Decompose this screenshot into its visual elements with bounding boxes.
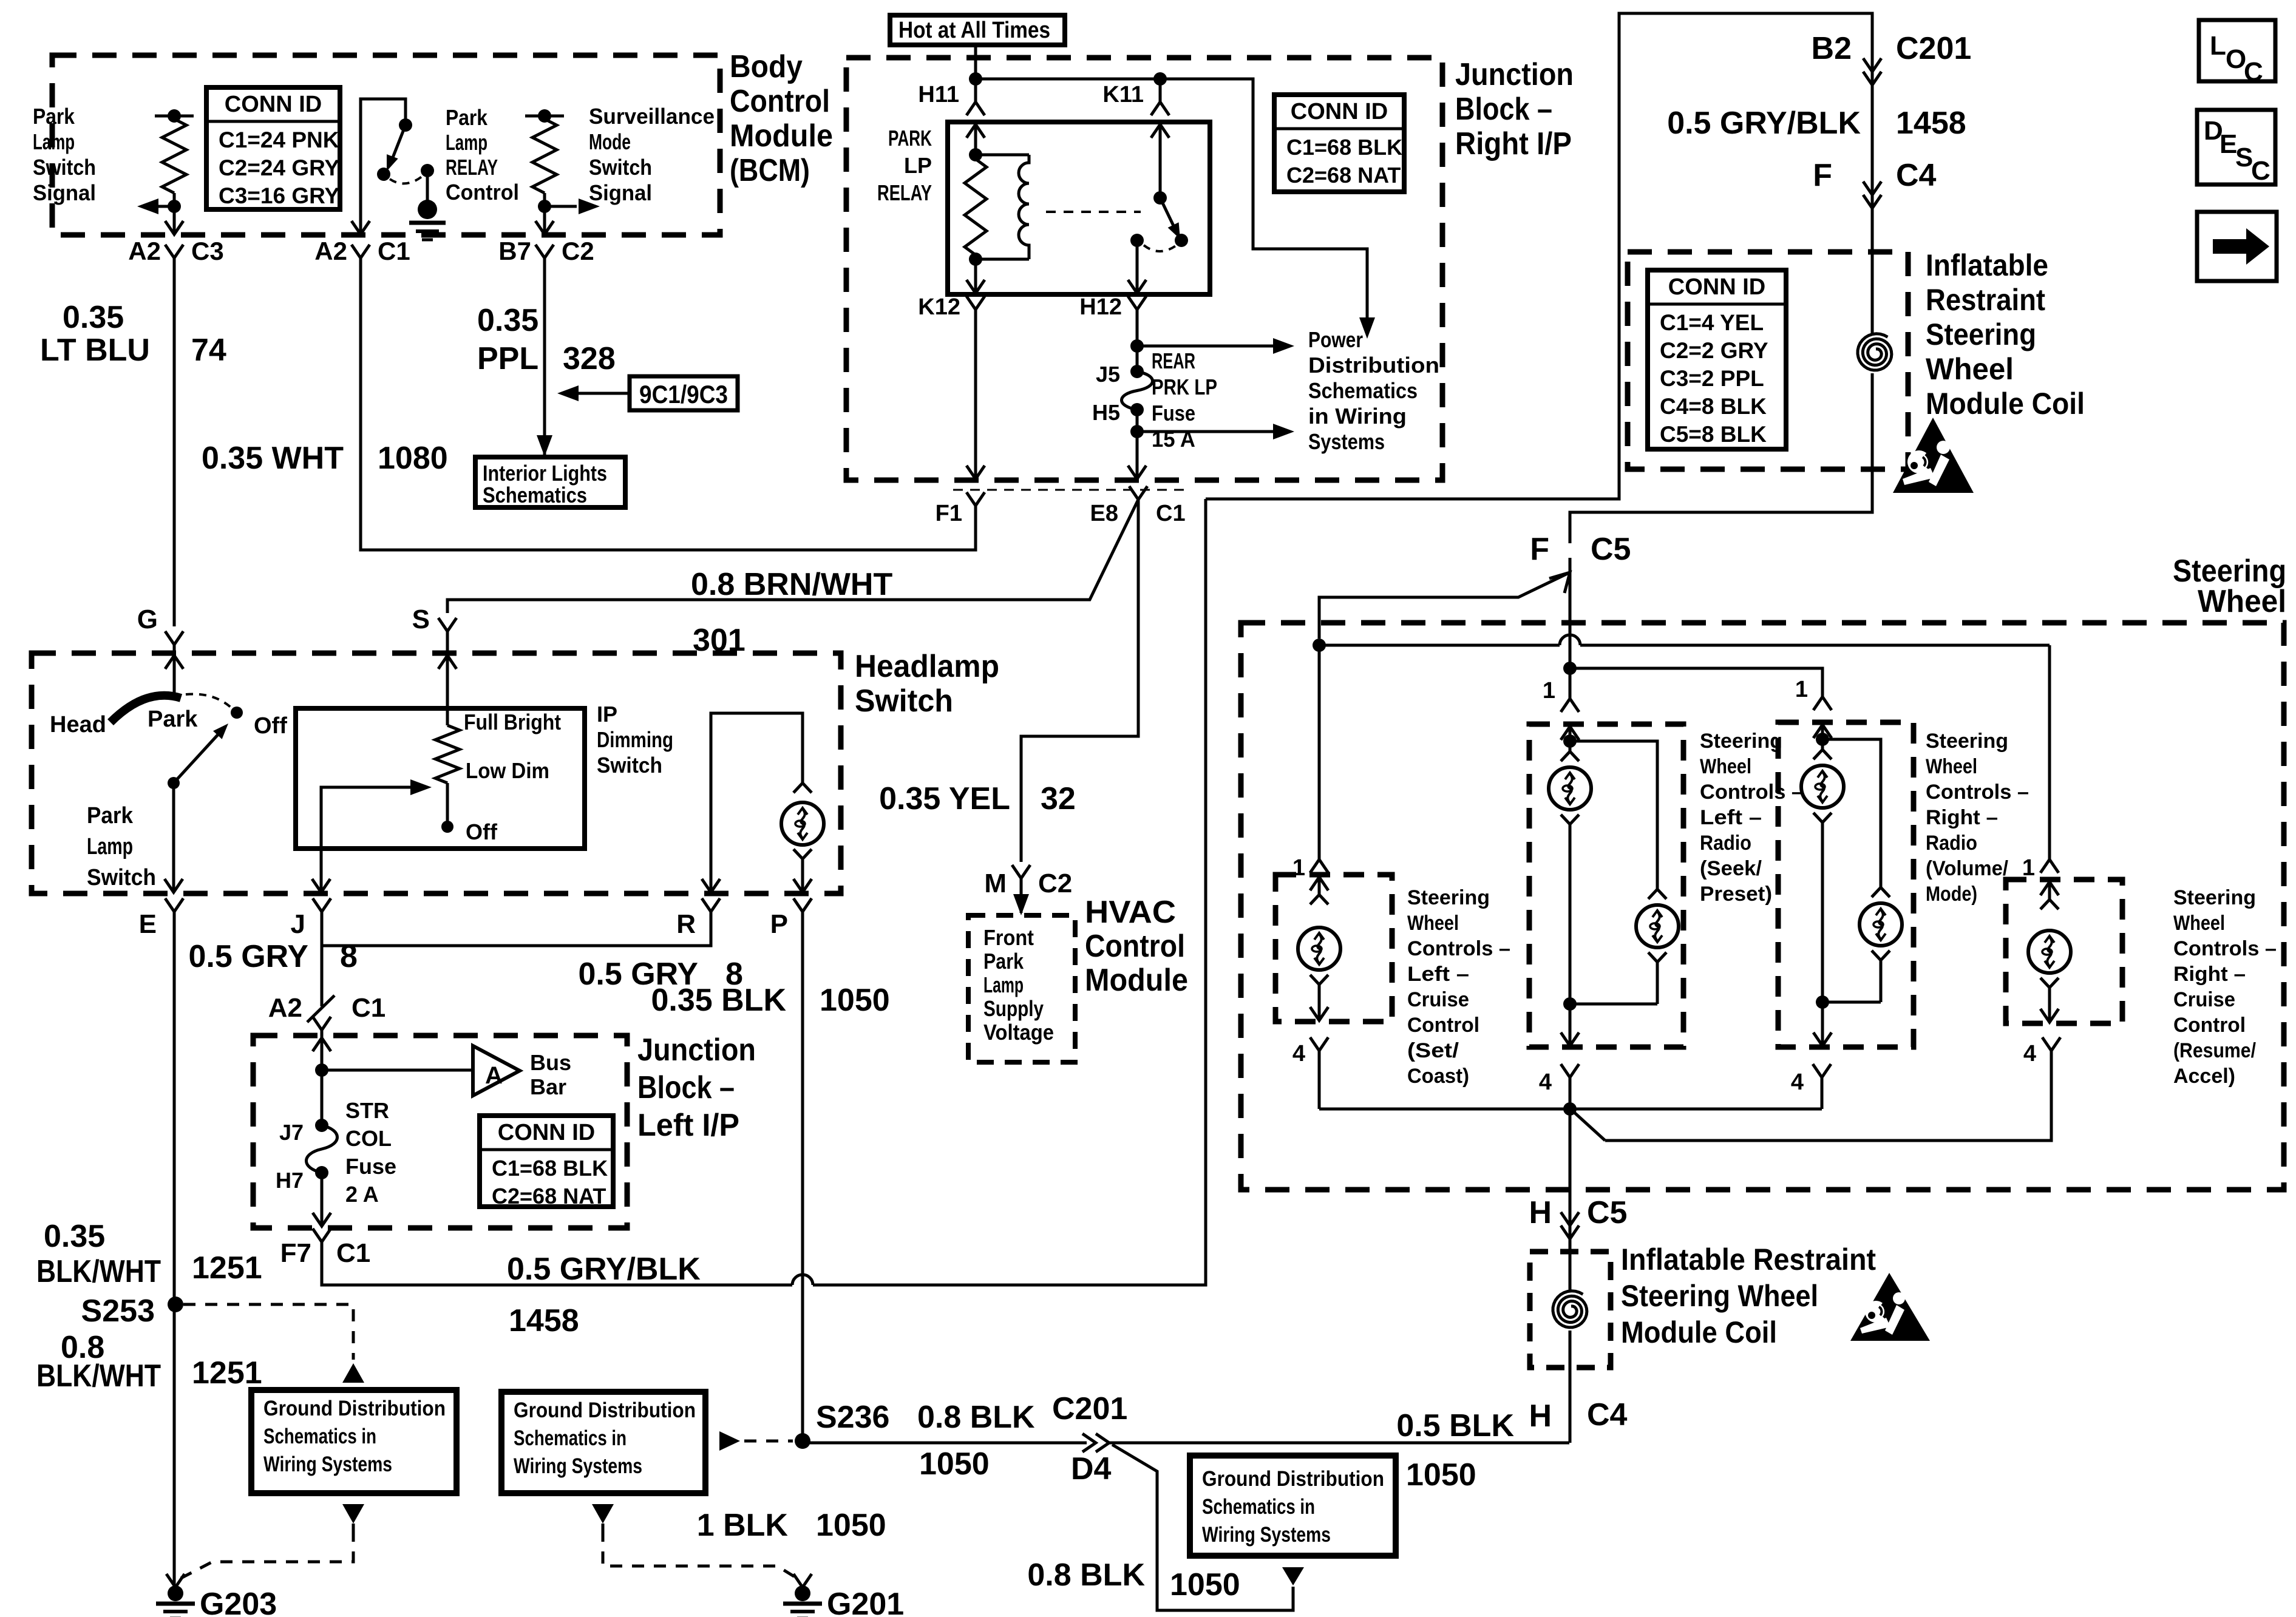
svg-text:Supply: Supply bbox=[983, 996, 1044, 1021]
svg-text:BLK/WHT: BLK/WHT bbox=[36, 1358, 161, 1394]
svg-text:C201: C201 bbox=[1896, 31, 1971, 66]
svg-text:J7: J7 bbox=[279, 1120, 304, 1145]
svg-text:1458: 1458 bbox=[509, 1303, 579, 1338]
switch: headlamp rotary wiper thick arc bbox=[110, 696, 181, 722]
node: ground contact dot bbox=[421, 164, 434, 177]
svg-text:Signal: Signal bbox=[33, 180, 96, 205]
connector F7/C1 chevron bbox=[313, 1229, 331, 1242]
svg-text:D4: D4 bbox=[1071, 1451, 1112, 1486]
wire: branch to bus bar triangle bbox=[322, 1069, 473, 1072]
svg-text:Mode: Mode bbox=[589, 129, 631, 154]
table: JB left CONN ID box bbox=[480, 1116, 613, 1207]
fuse: REAR PRK LP fuse 15A bbox=[1122, 371, 1153, 410]
ref box: Hot at All Times bbox=[890, 15, 1065, 45]
module box: Body Control Module (BCM) dashed outline bbox=[52, 55, 720, 235]
svg-text:Steering: Steering bbox=[1926, 317, 2036, 351]
svg-text:Steering: Steering bbox=[1926, 730, 2008, 753]
connector chevron below right lamp (SW controls left radio) bbox=[1648, 952, 1666, 962]
wire: fuse to F7 exit with arrow bbox=[321, 1173, 324, 1226]
switch: relay contact arm bbox=[1160, 198, 1174, 227]
svg-text:PRK LP: PRK LP bbox=[1152, 375, 1217, 399]
resistor: IP dimming rheostat bbox=[435, 725, 460, 783]
svg-text:Bus: Bus bbox=[530, 1050, 571, 1075]
svg-text:Front: Front bbox=[983, 925, 1034, 950]
svg-text:0.35: 0.35 bbox=[63, 300, 124, 335]
svg-text:Switch: Switch bbox=[855, 683, 953, 719]
svg-text:C: C bbox=[2251, 156, 2271, 186]
svg-text:Control: Control bbox=[1085, 929, 1185, 964]
svg-text:Junction: Junction bbox=[637, 1032, 756, 1068]
svg-text:C201: C201 bbox=[1052, 1391, 1127, 1426]
svg-text:C3=16 GRY: C3=16 GRY bbox=[219, 183, 339, 208]
lamp: SW controls left cruise illumination bbox=[1298, 927, 1340, 970]
svg-text:Surveillance: Surveillance bbox=[589, 104, 715, 129]
svg-text:Low Dim: Low Dim bbox=[466, 758, 549, 783]
svg-text:F: F bbox=[1813, 158, 1832, 193]
ground: BCM relay control ground symbol bbox=[418, 200, 437, 219]
icon: SRS warning triangle (bottom) bbox=[1850, 1273, 1930, 1341]
svg-text:4: 4 bbox=[1539, 1070, 1552, 1095]
ref box: Interior Lights Schematics bbox=[475, 457, 625, 507]
wire: arrow to Park Lamp Switch Signal text bbox=[146, 205, 174, 208]
node: H11 branch dot bbox=[969, 72, 982, 86]
svg-text:CONN ID: CONN ID bbox=[1291, 99, 1388, 124]
svg-text:C2: C2 bbox=[1038, 869, 1072, 898]
svg-text:Lamp: Lamp bbox=[983, 972, 1024, 997]
svg-text:Block –: Block – bbox=[637, 1070, 735, 1105]
svg-text:Headlamp: Headlamp bbox=[855, 649, 999, 684]
svg-text:Module Coil: Module Coil bbox=[1621, 1315, 1777, 1349]
svg-text:G201: G201 bbox=[827, 1587, 904, 1617]
wire: surveillance resistor top tick bbox=[525, 115, 564, 118]
svg-text:B7: B7 bbox=[498, 237, 531, 265]
svg-text:Controls –: Controls – bbox=[2173, 937, 2277, 960]
svg-text:Full Bright: Full Bright bbox=[464, 710, 561, 734]
ref box: 9C1/9C3 bbox=[630, 376, 738, 410]
svg-text:Wheel: Wheel bbox=[1700, 755, 1751, 778]
svg-text:Voltage: Voltage bbox=[983, 1020, 1054, 1045]
dashed link: S253 to ground distribution box 1 bbox=[183, 1304, 353, 1360]
connector fork above lamp (SW controls left cruise) bbox=[1310, 895, 1328, 904]
wire: arrow from 9C1/9C3 to PPL wire bbox=[571, 392, 630, 395]
dashed link: box 2 to S236 bbox=[744, 1440, 793, 1443]
wire: arrow at BCM boundary (C1 wire) bbox=[352, 221, 370, 234]
svg-text:Off: Off bbox=[254, 713, 287, 739]
node: dimmer Off dot bbox=[441, 821, 453, 833]
connector chevron below lamp (SW controls left cruise) bbox=[1310, 975, 1328, 985]
wire: PPL 328 from B7/C2 down to Interior Lights bbox=[543, 258, 546, 455]
svg-text:0.5 GRY/BLK: 0.5 GRY/BLK bbox=[507, 1252, 701, 1287]
svg-text:LP: LP bbox=[904, 153, 932, 178]
svg-text:F1: F1 bbox=[936, 501, 962, 526]
module box: Junction Block - Left I/P dashed outline bbox=[253, 1036, 627, 1228]
connector line: junction block C1 face bbox=[953, 489, 1184, 491]
wire: lamp to P exit bbox=[801, 859, 804, 892]
connector pin 4 volume mode bbox=[1813, 1064, 1831, 1077]
wire: arrow to Power Distribution lower bbox=[1137, 430, 1275, 433]
svg-text:Park: Park bbox=[33, 104, 75, 129]
arrow: onto G201 wire bbox=[793, 1574, 812, 1587]
svg-text:PPL: PPL bbox=[477, 341, 538, 376]
svg-text:1458: 1458 bbox=[1896, 106, 1966, 141]
ref box: Ground Distribution box 2 bbox=[501, 1392, 705, 1493]
wire: R2 bottom to junction bbox=[543, 193, 546, 206]
svg-text:Dimming: Dimming bbox=[597, 727, 673, 752]
wire: LT BLU 74 from A2/C3 down to G bbox=[173, 258, 176, 626]
svg-text:0.35: 0.35 bbox=[477, 303, 538, 338]
wire: SW controls right radio right lamp rejoin bbox=[1880, 960, 1883, 1002]
wire: right cruise pin4 offset path bbox=[1605, 1051, 2051, 1141]
connector pin 4 left radio bbox=[1561, 1064, 1579, 1077]
lamp: SW controls left radio left lamp bbox=[1549, 767, 1591, 810]
wire: rheostat to Off dot bbox=[446, 783, 449, 827]
svg-text:4: 4 bbox=[1791, 1070, 1804, 1095]
svg-text:A2: A2 bbox=[314, 237, 347, 265]
wire: relay switch common from K11 bbox=[1159, 122, 1162, 198]
wire: SW controls left radio entry with arrow bbox=[1569, 725, 1572, 741]
wire: D4 branch to ground distribution box 3 bbox=[1112, 1445, 1293, 1610]
wire: R wire joins J wire bbox=[322, 912, 711, 946]
node: R1 bottom junction dot bbox=[168, 200, 181, 213]
svg-text:Ground Distribution: Ground Distribution bbox=[514, 1398, 696, 1422]
svg-text:H11: H11 bbox=[918, 82, 959, 107]
svg-text:Park: Park bbox=[148, 707, 198, 732]
svg-text:Cruise: Cruise bbox=[1407, 988, 1469, 1011]
svg-text:0.5 BLK: 0.5 BLK bbox=[1396, 1408, 1514, 1443]
connector G chevron bbox=[165, 631, 183, 645]
svg-text:C1=68 BLK: C1=68 BLK bbox=[492, 1156, 608, 1181]
wire: J wire down bbox=[321, 912, 324, 1006]
svg-text:C4: C4 bbox=[1896, 158, 1937, 193]
hop: bus 1 over C5 wire bbox=[1560, 635, 1580, 645]
wire: left cruise feed bbox=[1318, 645, 1321, 859]
hop: GRY/BLK over P wire bbox=[792, 1275, 813, 1285]
svg-text:Radio: Radio bbox=[1926, 832, 1977, 855]
svg-text:0.8 BLK: 0.8 BLK bbox=[1027, 1558, 1145, 1593]
connector H11 fork bbox=[966, 102, 985, 115]
node: switch S1 pivot dot bbox=[377, 168, 390, 181]
svg-text:Module: Module bbox=[1085, 963, 1188, 998]
svg-text:H7: H7 bbox=[276, 1168, 304, 1193]
svg-text:Accel): Accel) bbox=[2173, 1065, 2235, 1088]
svg-text:Schematics in: Schematics in bbox=[263, 1425, 376, 1448]
node: bus 1 left dot bbox=[1313, 639, 1326, 652]
symbol: triangle below box 3 bbox=[1282, 1567, 1304, 1585]
svg-text:Switch: Switch bbox=[33, 155, 96, 180]
svg-text:Switch: Switch bbox=[87, 865, 156, 890]
svg-text:Fuse: Fuse bbox=[345, 1154, 396, 1179]
svg-text:K12: K12 bbox=[918, 294, 960, 320]
wire: M/C2 into HVAC with arrow bbox=[1020, 878, 1023, 913]
wire: R-P lamp loop bbox=[711, 713, 803, 892]
node: S253 splice dot bbox=[168, 1297, 183, 1312]
svg-text:C4=8 BLK: C4=8 BLK bbox=[1660, 394, 1767, 419]
node: bus bar branch dot bbox=[315, 1063, 328, 1077]
wire: SW controls right radio entry with arrow bbox=[1821, 724, 1824, 739]
svg-text:H: H bbox=[1529, 1398, 1552, 1434]
svg-text:Preset): Preset) bbox=[1700, 883, 1772, 906]
connector pin 4 left cruise bbox=[1310, 1037, 1328, 1051]
svg-text:0.35 WHT: 0.35 WHT bbox=[202, 441, 344, 476]
wire: arrow to Power Distribution upper bbox=[1137, 345, 1275, 348]
svg-text:Right I/P: Right I/P bbox=[1455, 126, 1572, 161]
svg-text:1050: 1050 bbox=[820, 983, 890, 1018]
coil: relay winding bbox=[1019, 155, 1029, 259]
svg-text:1050: 1050 bbox=[1406, 1457, 1476, 1493]
connector pin 1 left radio fork bbox=[1561, 699, 1579, 712]
svg-text:Controls –: Controls – bbox=[1700, 781, 1803, 804]
svg-text:Steering Wheel: Steering Wheel bbox=[1621, 1279, 1818, 1313]
node: bus 2 dot on C5 wire bbox=[1563, 662, 1577, 675]
connector H12 chevron bbox=[1128, 296, 1146, 310]
control box: SW controls right radio dashed outline bbox=[1778, 722, 1914, 1047]
connector B7/C2 chevron bbox=[535, 245, 554, 258]
wire: R2 down to BCM boundary with arrow bbox=[543, 206, 546, 234]
svg-text:Wiring Systems: Wiring Systems bbox=[514, 1454, 642, 1478]
wire: right cruise diagonal to bus dot bbox=[1572, 1110, 1605, 1141]
svg-text:Park: Park bbox=[983, 949, 1024, 974]
svg-text:(Seek/: (Seek/ bbox=[1700, 857, 1762, 880]
svg-text:0.8 BRN/WHT: 0.8 BRN/WHT bbox=[691, 567, 892, 602]
svg-text:Lamp: Lamp bbox=[33, 129, 75, 154]
svg-text:0.8 BLK: 0.8 BLK bbox=[917, 1400, 1035, 1435]
svg-text:B2: B2 bbox=[1812, 31, 1852, 66]
svg-text:Lamp: Lamp bbox=[446, 130, 487, 155]
svg-text:328: 328 bbox=[563, 341, 616, 376]
svg-text:REAR: REAR bbox=[1152, 348, 1195, 373]
wire: hot feed into junction block bbox=[974, 45, 977, 102]
control box: SW controls left cruise dashed outline bbox=[1275, 875, 1392, 1022]
module box: HVAC Control Module dashed outline bbox=[968, 915, 1075, 1062]
svg-text:Wheel: Wheel bbox=[2198, 584, 2286, 619]
svg-text:S: S bbox=[412, 605, 430, 634]
dashed link: box 2 to G201 wire bbox=[603, 1530, 799, 1579]
symbol: triangle below box 2 bbox=[592, 1504, 614, 1524]
wire: SW controls right radio left lamp down bbox=[1821, 822, 1824, 1002]
wire: S into IP dimming switch bbox=[446, 631, 449, 725]
wire: low dim wiper arrow to J exit bbox=[321, 787, 421, 892]
svg-text:C2: C2 bbox=[562, 237, 594, 265]
ref box: Ground Distribution box 1 bbox=[251, 1390, 457, 1493]
svg-text:E8: E8 bbox=[1090, 501, 1118, 526]
svg-text:Lamp: Lamp bbox=[87, 834, 133, 859]
resistor: relay internal resistor bbox=[965, 159, 987, 255]
svg-text:Ground Distribution: Ground Distribution bbox=[263, 1397, 446, 1420]
svg-text:Steering: Steering bbox=[1407, 886, 1490, 909]
node: relay coil top dot bbox=[969, 148, 982, 161]
icon: SRS warning triangle (top) bbox=[1893, 418, 1974, 493]
svg-text:Hot at All Times: Hot at All Times bbox=[898, 18, 1050, 43]
component box: IP Dimming Switch outline bbox=[296, 708, 585, 849]
svg-text:RELAY: RELAY bbox=[877, 180, 932, 205]
svg-text:Signal: Signal bbox=[589, 180, 652, 205]
wire: relay coil branch bottom bbox=[976, 258, 1029, 261]
svg-text:Inflatable Restraint: Inflatable Restraint bbox=[1621, 1242, 1876, 1276]
svg-text:CONN ID: CONN ID bbox=[498, 1120, 595, 1145]
svg-text:A2: A2 bbox=[128, 237, 161, 265]
svg-text:H12: H12 bbox=[1079, 294, 1122, 320]
node: Off contact dot bbox=[231, 707, 243, 719]
svg-text:Radio: Radio bbox=[1700, 832, 1751, 855]
wire: left cruise pin4 to bus bbox=[1318, 1051, 1321, 1109]
svg-text:1050: 1050 bbox=[816, 1508, 886, 1543]
svg-text:Left I/P: Left I/P bbox=[637, 1108, 739, 1143]
svg-text:Switch: Switch bbox=[589, 155, 652, 180]
svg-text:0.35: 0.35 bbox=[44, 1219, 105, 1254]
connector M/C2 chevron bbox=[1012, 865, 1030, 878]
node: resistor R2 top dot bbox=[538, 109, 551, 123]
svg-text:in Wiring: in Wiring bbox=[1308, 404, 1407, 429]
wire: SW controls right radio right branch bbox=[1822, 739, 1881, 887]
module box: Inflatable Restraint coil dashed outline (bottom) bbox=[1530, 1252, 1611, 1368]
svg-text:1050: 1050 bbox=[919, 1446, 990, 1482]
svg-text:CONN ID: CONN ID bbox=[1668, 274, 1765, 300]
svg-text:Inflatable: Inflatable bbox=[1926, 248, 2048, 282]
svg-text:C1=24 PNK: C1=24 PNK bbox=[219, 127, 339, 152]
svg-text:F: F bbox=[1530, 532, 1549, 567]
wire: C5 vertical through hop bbox=[1569, 558, 1572, 668]
svg-text:Controls –: Controls – bbox=[1926, 781, 2029, 804]
connector fork above lamp (SW controls right cruise) bbox=[2040, 900, 2059, 909]
svg-text:0.35 BLK: 0.35 BLK bbox=[651, 983, 786, 1018]
svg-text:HVAC: HVAC bbox=[1085, 895, 1176, 930]
connector A2/C1 chevron bbox=[352, 245, 370, 258]
wire: E wire down to S253 and G203 bbox=[173, 912, 176, 1585]
svg-text:C2=24 GRY: C2=24 GRY bbox=[219, 155, 339, 180]
connector chevron below right lamp (SW controls right radio) bbox=[1872, 951, 1890, 960]
switch: rotary arm to Off bbox=[174, 733, 220, 783]
module box: Headlamp Switch dashed outline bbox=[32, 653, 841, 893]
svg-text:Systems: Systems bbox=[1308, 429, 1385, 454]
connector chevron below panel lamp bbox=[793, 849, 812, 859]
connector fork above right lamp (SW controls left radio) bbox=[1648, 889, 1666, 899]
wire: relay coil leg from H11 bbox=[974, 122, 977, 155]
connector P chevron bbox=[793, 898, 812, 912]
connector pin 1 volume mode fork bbox=[1813, 697, 1832, 710]
svg-text:Wheel: Wheel bbox=[1926, 755, 1977, 778]
svg-text:Control: Control bbox=[2173, 1014, 2246, 1037]
connector J chevron bbox=[313, 898, 331, 912]
connector chevron below left lamp (SW controls right radio) bbox=[1813, 813, 1832, 822]
svg-text:P: P bbox=[770, 909, 788, 939]
svg-text:Bar: Bar bbox=[530, 1074, 566, 1099]
svg-text:R: R bbox=[676, 909, 696, 939]
wire: stub to BCM internal ground bbox=[426, 171, 429, 200]
ref box: Ground Distribution box 3 bbox=[1190, 1456, 1396, 1556]
fuse: STR COL fuse 2A bbox=[307, 1125, 338, 1173]
svg-text:74: 74 bbox=[191, 333, 226, 368]
wire: relay resistor leg to K12 with arrow bbox=[974, 259, 977, 293]
svg-text:1080: 1080 bbox=[378, 441, 448, 476]
svg-text:C1: C1 bbox=[378, 237, 410, 265]
svg-text:BLK/WHT: BLK/WHT bbox=[36, 1254, 161, 1289]
svg-text:0.5 GRY/BLK: 0.5 GRY/BLK bbox=[1667, 106, 1861, 141]
svg-text:C2=68 NAT: C2=68 NAT bbox=[1286, 163, 1401, 188]
svg-text:C1=68 BLK: C1=68 BLK bbox=[1286, 135, 1402, 160]
wire: G into headlamp switch bbox=[173, 645, 176, 698]
connector fork above left lamp (SW controls right radio) bbox=[1813, 750, 1832, 759]
arrow: onto G203 wire bbox=[166, 1574, 185, 1587]
node: rotary pivot dot bbox=[168, 777, 180, 789]
svg-text:S253: S253 bbox=[81, 1293, 155, 1329]
svg-text:Cruise: Cruise bbox=[2173, 988, 2235, 1011]
lamp: headlamp switch illumination lamp bbox=[781, 802, 824, 845]
svg-text:Schematics: Schematics bbox=[483, 483, 587, 507]
svg-text:STR: STR bbox=[345, 1098, 389, 1123]
module box: Junction Block - Right I/P dashed outline bbox=[846, 58, 1442, 480]
node: S236 splice dot bbox=[795, 1433, 810, 1449]
svg-text:Wheel: Wheel bbox=[1407, 912, 1459, 935]
ref box: arrow bbox=[2197, 212, 2277, 281]
svg-text:Coast): Coast) bbox=[1407, 1065, 1469, 1088]
connector R chevron bbox=[702, 898, 720, 912]
node: K11 feed dot bbox=[1153, 72, 1167, 86]
lamp: SW controls left radio right lamp bbox=[1636, 905, 1679, 947]
svg-text:1 BLK: 1 BLK bbox=[697, 1508, 789, 1543]
svg-text:M: M bbox=[984, 869, 1007, 898]
svg-text:Wiring Systems: Wiring Systems bbox=[263, 1453, 392, 1476]
svg-text:Wiring Systems: Wiring Systems bbox=[1202, 1523, 1331, 1547]
svg-text:(Volume/: (Volume/ bbox=[1926, 857, 2009, 880]
node: power distribution branch dot upper bbox=[1130, 339, 1144, 353]
svg-text:Steering: Steering bbox=[2173, 886, 2256, 909]
svg-text:Power: Power bbox=[1308, 327, 1363, 352]
connector F1 chevron bbox=[966, 492, 985, 506]
connector K12 chevron bbox=[966, 296, 985, 310]
svg-text:RELAY: RELAY bbox=[446, 155, 498, 180]
connector E8/C1 chevron bbox=[1129, 486, 1147, 500]
svg-text:Module: Module bbox=[730, 118, 833, 154]
svg-text:S: S bbox=[2235, 143, 2253, 172]
connector fork above panel lamp bbox=[793, 783, 812, 793]
svg-text:C5=8 BLK: C5=8 BLK bbox=[1660, 422, 1767, 447]
switch S1: park lamp relay control arm with arrow bbox=[392, 125, 406, 159]
svg-text:Mode): Mode) bbox=[1926, 883, 1977, 906]
svg-text:(Resume/: (Resume/ bbox=[2173, 1039, 2256, 1062]
svg-text:2 A: 2 A bbox=[345, 1182, 379, 1207]
connector pin 4 right cruise bbox=[2042, 1037, 2060, 1051]
node: relay contact dot bbox=[1175, 234, 1188, 247]
connector S chevron bbox=[438, 618, 457, 631]
connector E chevron bbox=[165, 898, 183, 912]
ground G203 bbox=[168, 1585, 183, 1601]
svg-text:Wheel: Wheel bbox=[1926, 352, 2014, 386]
wire: SW controls left radio right branch bbox=[1570, 741, 1657, 889]
wire: fuse output down bbox=[1136, 410, 1139, 479]
wire: bottom bus bbox=[1319, 1108, 1822, 1111]
connector chevron below left lamp (SW controls left radio) bbox=[1561, 815, 1579, 824]
svg-text:C1: C1 bbox=[352, 993, 385, 1023]
svg-text:C4: C4 bbox=[1587, 1397, 1628, 1432]
svg-text:Junction: Junction bbox=[1455, 57, 1574, 92]
svg-text:C1=4 YEL: C1=4 YEL bbox=[1660, 310, 1764, 335]
svg-text:Schematics: Schematics bbox=[1308, 378, 1418, 403]
svg-text:Park: Park bbox=[87, 803, 134, 829]
svg-text:Switch: Switch bbox=[597, 753, 662, 778]
wire: H12 down to fuse bbox=[1136, 310, 1139, 371]
node: bottom bus dot bbox=[1563, 1102, 1577, 1116]
svg-text:S236: S236 bbox=[816, 1400, 889, 1435]
ref box: DESC bbox=[2197, 110, 2275, 185]
node: relay output contact dot bbox=[1130, 234, 1144, 247]
control box: SW controls right cruise dashed outline bbox=[2006, 880, 2122, 1023]
svg-text:G: G bbox=[137, 605, 158, 634]
resistor R1: park lamp switch signal (BCM internal) bbox=[162, 119, 186, 193]
node: power distribution branch dot lower bbox=[1130, 425, 1144, 438]
wire: coil to F/C5 exit bbox=[1570, 373, 1872, 543]
connector F/C4 double chevron bbox=[1863, 181, 1881, 195]
connector B2/C201 double chevron bbox=[1863, 58, 1881, 72]
